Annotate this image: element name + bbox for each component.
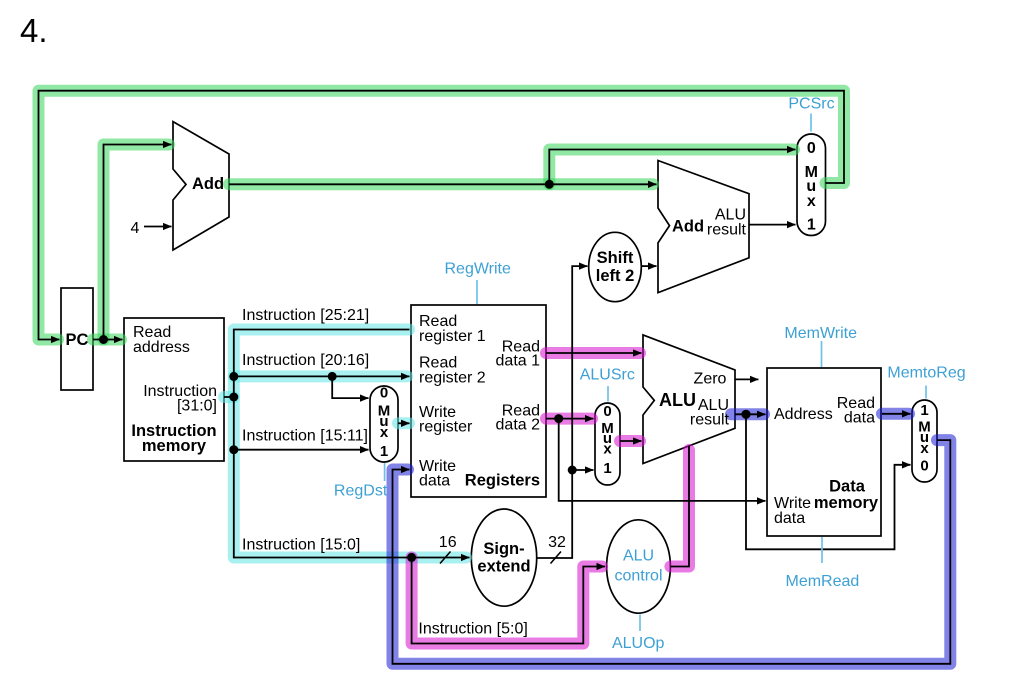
svg-text:1: 1 <box>920 402 928 419</box>
svg-text:MemtoReg: MemtoReg <box>887 365 965 382</box>
svg-text:Add: Add <box>192 175 224 193</box>
svg-text:PCSrc: PCSrc <box>788 96 834 113</box>
svg-text:memory: memory <box>814 494 879 512</box>
svg-text:result: result <box>707 222 747 239</box>
svg-text:MemRead: MemRead <box>785 573 859 590</box>
svg-text:address: address <box>133 339 190 356</box>
svg-text:left 2: left 2 <box>596 267 635 285</box>
svg-text:0: 0 <box>380 385 388 402</box>
svg-text:1: 1 <box>603 460 611 477</box>
svg-text:x: x <box>380 424 389 441</box>
svg-text:x: x <box>807 193 816 210</box>
svg-text:16: 16 <box>439 534 457 551</box>
svg-text:PC: PC <box>66 331 89 349</box>
svg-text:ALU: ALU <box>659 390 696 410</box>
svg-text:Instruction [20:16]: Instruction [20:16] <box>242 352 369 369</box>
svg-text:0: 0 <box>920 458 928 475</box>
svg-text:0: 0 <box>807 140 816 157</box>
svg-text:Registers: Registers <box>465 472 540 490</box>
svg-text:Instruction [15:11]: Instruction [15:11] <box>242 428 368 445</box>
svg-text:x: x <box>603 441 612 458</box>
svg-text:data 2: data 2 <box>496 417 541 434</box>
svg-text:Address: Address <box>774 406 833 423</box>
svg-text:ALUOp: ALUOp <box>612 635 665 652</box>
svg-text:register: register <box>419 419 473 436</box>
svg-text:4: 4 <box>131 220 140 237</box>
svg-text:x: x <box>920 440 929 457</box>
svg-text:RegWrite: RegWrite <box>445 261 511 278</box>
svg-text:1: 1 <box>380 443 388 460</box>
svg-text:register 1: register 1 <box>419 328 486 345</box>
svg-text:Instruction [25:21]: Instruction [25:21] <box>242 307 369 324</box>
svg-text:[31:0]: [31:0] <box>177 398 217 415</box>
svg-text:data: data <box>844 410 875 427</box>
svg-text:4.: 4. <box>20 12 48 49</box>
svg-text:Sign-: Sign- <box>483 540 524 558</box>
svg-text:RegDst: RegDst <box>334 483 388 500</box>
svg-text:Instruction [5:0]: Instruction [5:0] <box>418 621 527 638</box>
svg-text:data 1: data 1 <box>496 353 541 370</box>
svg-text:Instruction [15:0]: Instruction [15:0] <box>242 537 360 554</box>
svg-text:result: result <box>690 412 730 429</box>
svg-text:MemWrite: MemWrite <box>784 325 857 342</box>
svg-text:1: 1 <box>807 217 816 234</box>
svg-text:Data: Data <box>829 478 866 496</box>
svg-text:control: control <box>614 568 662 585</box>
svg-text:ALU: ALU <box>623 548 654 565</box>
svg-text:Shift: Shift <box>597 249 634 267</box>
svg-text:ALUSrc: ALUSrc <box>580 367 635 384</box>
svg-text:register 2: register 2 <box>419 370 486 387</box>
svg-text:32: 32 <box>548 534 566 551</box>
svg-text:Add: Add <box>672 218 704 236</box>
svg-text:Zero: Zero <box>694 371 727 388</box>
svg-text:0: 0 <box>603 403 611 420</box>
svg-text:memory: memory <box>142 437 207 455</box>
svg-text:data: data <box>419 473 450 490</box>
svg-text:extend: extend <box>477 558 530 576</box>
svg-text:data: data <box>774 510 805 527</box>
